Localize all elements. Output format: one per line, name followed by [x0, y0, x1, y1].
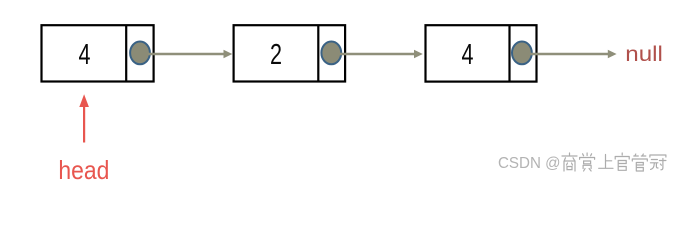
node 1 box — [42, 25, 154, 81]
svg-text:head: head — [58, 155, 109, 182]
watermark CJK white emboss copy — [563, 154, 667, 172]
node 1 pointer dot — [130, 42, 150, 65]
svg-text:4: 4 — [462, 39, 474, 71]
node 2 box — [234, 25, 346, 81]
arrow node2 to node3 — [340, 50, 423, 59]
svg-text:4: 4 — [79, 39, 91, 71]
arrow node3 to null — [531, 50, 617, 59]
node 2 pointer dot — [321, 42, 341, 65]
svg-text:2: 2 — [270, 39, 282, 71]
watermark CJK gray strokes — [562, 153, 666, 171]
node 3 pointer dot — [512, 42, 532, 65]
svg-text:CSDN @: CSDN @ — [498, 155, 561, 172]
node 3 box — [426, 25, 537, 81]
head arrow — [79, 94, 89, 142]
svg-text:null: null — [625, 42, 663, 66]
arrow node1 to node2 — [148, 50, 232, 59]
